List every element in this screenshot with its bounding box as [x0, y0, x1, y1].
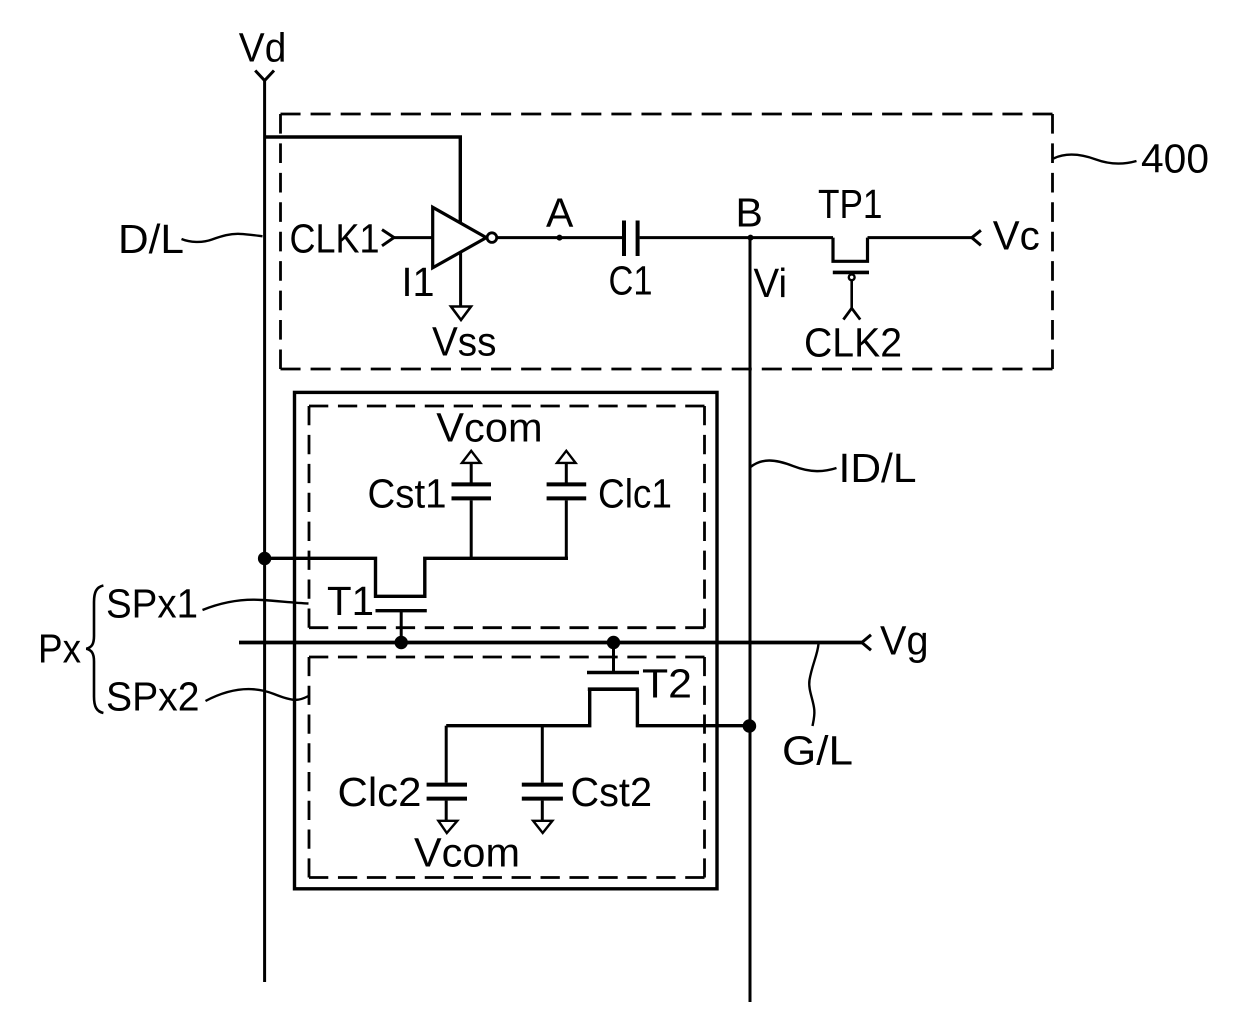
wire TP1 to Vc	[868, 236, 972, 239]
transistor T2 channel bar	[588, 687, 639, 691]
wire G/L leader squiggle	[809, 644, 818, 726]
wire CLK1 to inverter input	[394, 236, 433, 239]
wire Clc2 bottom lead	[445, 801, 448, 821]
transistor TP1 gate bubble	[849, 274, 855, 280]
wire Vd data line (vertical)	[263, 81, 266, 983]
power Vcom arrow for Cst2	[533, 821, 552, 833]
transistor T2 gate bar	[587, 671, 639, 675]
node G/L junction dot	[743, 719, 757, 733]
svg-text:Vg: Vg	[880, 618, 929, 664]
wire SPx2 leader squiggle	[206, 689, 309, 701]
wire T2 right terminal to ID/L	[637, 689, 749, 726]
svg-text:Vcom: Vcom	[436, 405, 542, 451]
svg-text:ID/L: ID/L	[839, 445, 917, 491]
svg-text:Clc1: Clc1	[598, 471, 672, 517]
svg-text:B: B	[736, 190, 763, 236]
wire Vd to inverter supply	[265, 137, 461, 223]
wire T2 gate lead	[612, 648, 615, 671]
wire TP1 gate lead	[850, 280, 853, 308]
capacitor Clc2 plates	[427, 783, 467, 787]
svg-text:T2: T2	[642, 661, 692, 707]
wire C1 to TP1	[640, 236, 833, 239]
ground Vss arrow	[451, 307, 471, 321]
capacitor C1 right plate	[636, 221, 640, 257]
wire inverter output to C1	[497, 236, 623, 239]
node T1 gate junction dot	[395, 636, 408, 649]
op-amp inverter I1 triangle	[433, 207, 487, 267]
wire Vg gate line	[239, 641, 862, 645]
node T2 gate junction dot	[607, 636, 620, 649]
svg-text:400: 400	[1141, 136, 1209, 182]
capacitor Cst2 plates	[522, 783, 563, 787]
wire ID/L leader squiggle	[751, 461, 837, 472]
brace Px	[86, 586, 103, 714]
svg-text:T1: T1	[327, 578, 374, 624]
box pixel Px (solid)	[295, 392, 718, 888]
wire Cst1 bottom lead	[470, 500, 473, 558]
transistor TP1 channel	[833, 238, 868, 262]
wire T1 gate lead	[400, 612, 403, 642]
capacitor Cst1 plates	[452, 482, 492, 486]
svg-text:Vc: Vc	[993, 213, 1040, 259]
wire CLK1 input chevron	[382, 230, 394, 246]
svg-text:Vi: Vi	[754, 260, 788, 306]
dashed box 400	[281, 114, 1053, 369]
svg-text:C1: C1	[609, 258, 653, 304]
svg-text:D/L: D/L	[118, 216, 184, 262]
svg-text:CLK1: CLK1	[290, 216, 380, 262]
transistor T1 gate bar	[376, 609, 427, 612]
wire Clc2 top lead	[445, 726, 448, 783]
svg-text:SPx2: SPx2	[106, 673, 200, 719]
power Vcom arrow for Clc1	[557, 451, 576, 463]
wire Vc output chevron	[972, 230, 981, 245]
op-amp inverter I1 output bubble	[487, 233, 497, 243]
wire Vd tap through T1 to capacitors	[265, 558, 568, 596]
svg-text:A: A	[546, 190, 574, 236]
wire Vi data line (vertical from node B)	[749, 238, 752, 1002]
wire Clc1 bottom lead	[565, 500, 568, 558]
capacitor C1 left plate	[622, 221, 626, 257]
wire Cst1 top lead	[470, 463, 473, 483]
svg-text:Vd: Vd	[239, 25, 286, 71]
box sub-pixel SPx2 (dashed)	[309, 657, 705, 878]
wire Vg chevron	[862, 635, 871, 650]
svg-text:Cst2: Cst2	[571, 769, 653, 815]
wire Cst2 bottom lead	[541, 801, 544, 821]
capacitor Clc1 plates	[547, 482, 587, 486]
box sub-pixel SPx1 (dashed)	[309, 406, 705, 628]
transistor TP1 gate bar	[833, 271, 869, 275]
svg-text:TP1: TP1	[818, 181, 883, 227]
wire Cst2 top lead	[541, 726, 544, 783]
svg-text:I1: I1	[402, 259, 435, 305]
node junction dot on Vd	[258, 552, 271, 565]
wire Vd input chevron	[255, 71, 274, 81]
node B dot	[748, 235, 754, 241]
wire SPx1 leader squiggle	[203, 600, 309, 610]
svg-text:CLK2: CLK2	[804, 319, 902, 365]
wire Clc1 top lead	[565, 463, 568, 483]
wire D/L leader squiggle	[182, 234, 263, 242]
wire CLK2 chevron	[843, 308, 860, 319]
svg-text:Px: Px	[38, 626, 81, 672]
wire 400 leader squiggle	[1054, 155, 1137, 164]
power Vcom arrow for Clc2	[438, 821, 457, 833]
svg-text:G/L: G/L	[782, 728, 853, 774]
svg-text:Vcom: Vcom	[414, 830, 520, 876]
wire inverter to Vss	[459, 253, 462, 307]
power Vcom arrow for Cst1	[462, 451, 481, 463]
svg-text:SPx1: SPx1	[106, 580, 198, 626]
svg-text:Clc2: Clc2	[338, 769, 422, 815]
svg-text:Vss: Vss	[432, 319, 497, 365]
wire T2 left terminal to capacitors	[446, 689, 590, 726]
svg-text:Cst1: Cst1	[368, 471, 447, 517]
node A dot	[557, 235, 563, 241]
